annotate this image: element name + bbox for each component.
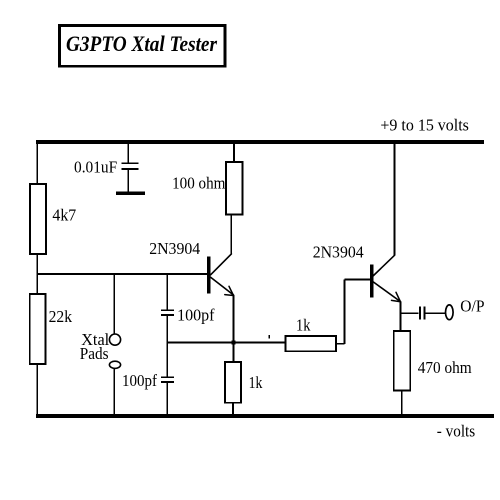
capacitor output coupling (420, 307, 424, 320)
resistor 100 ohm (226, 162, 243, 215)
transistor Q2 2N3904 (370, 255, 401, 301)
O/P terminal (446, 305, 454, 320)
ground rail (- volts) (36, 414, 494, 418)
wire 100 ohm top (233, 142, 235, 162)
wire left rail top segment (36, 140, 38, 184)
svg-text:100 ohm: 100 ohm (172, 173, 225, 192)
svg-text:4k7: 4k7 (52, 206, 76, 225)
svg-text:100pf: 100pf (177, 306, 215, 325)
wire 0.01uF cap top (127, 142, 129, 163)
resistor 1k horizontal (286, 336, 337, 351)
wire cap to terminal (426, 312, 446, 314)
svg-text:0.01uF: 0.01uF (74, 157, 117, 176)
resistor 470 ohm (394, 331, 411, 391)
title box (60, 26, 225, 67)
+V power rail (36, 140, 484, 144)
wire Q2 collector up (394, 144, 396, 255)
svg-text:22k: 22k (49, 307, 73, 326)
capacitor 100pf upper (161, 310, 174, 315)
node junction dot (232, 341, 236, 345)
wire xtal top branch (113, 274, 115, 335)
transistor Q1 2N3904 (207, 254, 234, 296)
resistor 4k7 (30, 184, 46, 254)
svg-text:100pf: 100pf (122, 371, 157, 390)
wire 100 ohm bottom to Q1 collector (230, 215, 232, 254)
wire 0.01uF cap bottom (127, 170, 129, 192)
xtal pad top (109, 334, 120, 345)
svg-text:Pads: Pads (80, 344, 109, 363)
capacitor 100pf lower (161, 377, 174, 382)
svg-text:470 ohm: 470 ohm (418, 358, 472, 377)
wire base bus (left mid horizontal) (37, 273, 208, 275)
svg-text:G3PTO Xtal Tester: G3PTO Xtal Tester (66, 31, 217, 56)
svg-text:O/P: O/P (460, 297, 484, 316)
wire 470 ohm bottom (401, 391, 403, 417)
wire 100pf middle (166, 316, 168, 377)
wire xtal bottom branch (113, 368, 115, 416)
wire coupling bus y342 (167, 342, 285, 344)
svg-text:1k: 1k (296, 316, 311, 335)
svg-text:- volts: - volts (437, 422, 475, 441)
wire 1k to Q2 base (336, 280, 370, 344)
svg-text:1k: 1k (249, 373, 263, 392)
wire 100pf chain top (166, 274, 168, 310)
ground bar (116, 191, 145, 195)
svg-text:+9 to 15 volts: +9 to 15 volts (380, 116, 469, 135)
wire 100pf chain bottom (166, 383, 168, 417)
wire 22k bottom to ground rail (36, 364, 38, 416)
stray tick mark (268, 335, 270, 339)
svg-text:2N3904: 2N3904 (149, 239, 200, 258)
wire Q1 emitter down (233, 295, 235, 362)
wire output branch (401, 312, 419, 314)
resistor 22k (30, 294, 46, 364)
capacitor 0.01uF (122, 163, 139, 169)
wire 4k7 bottom to 22k top (36, 254, 38, 294)
svg-text:2N3904: 2N3904 (313, 243, 364, 262)
wire 1k vertical bottom (232, 403, 234, 416)
wire Q2 emitter down (400, 302, 402, 332)
xtal pad bottom (109, 361, 120, 368)
resistor 1k vertical (225, 362, 241, 403)
